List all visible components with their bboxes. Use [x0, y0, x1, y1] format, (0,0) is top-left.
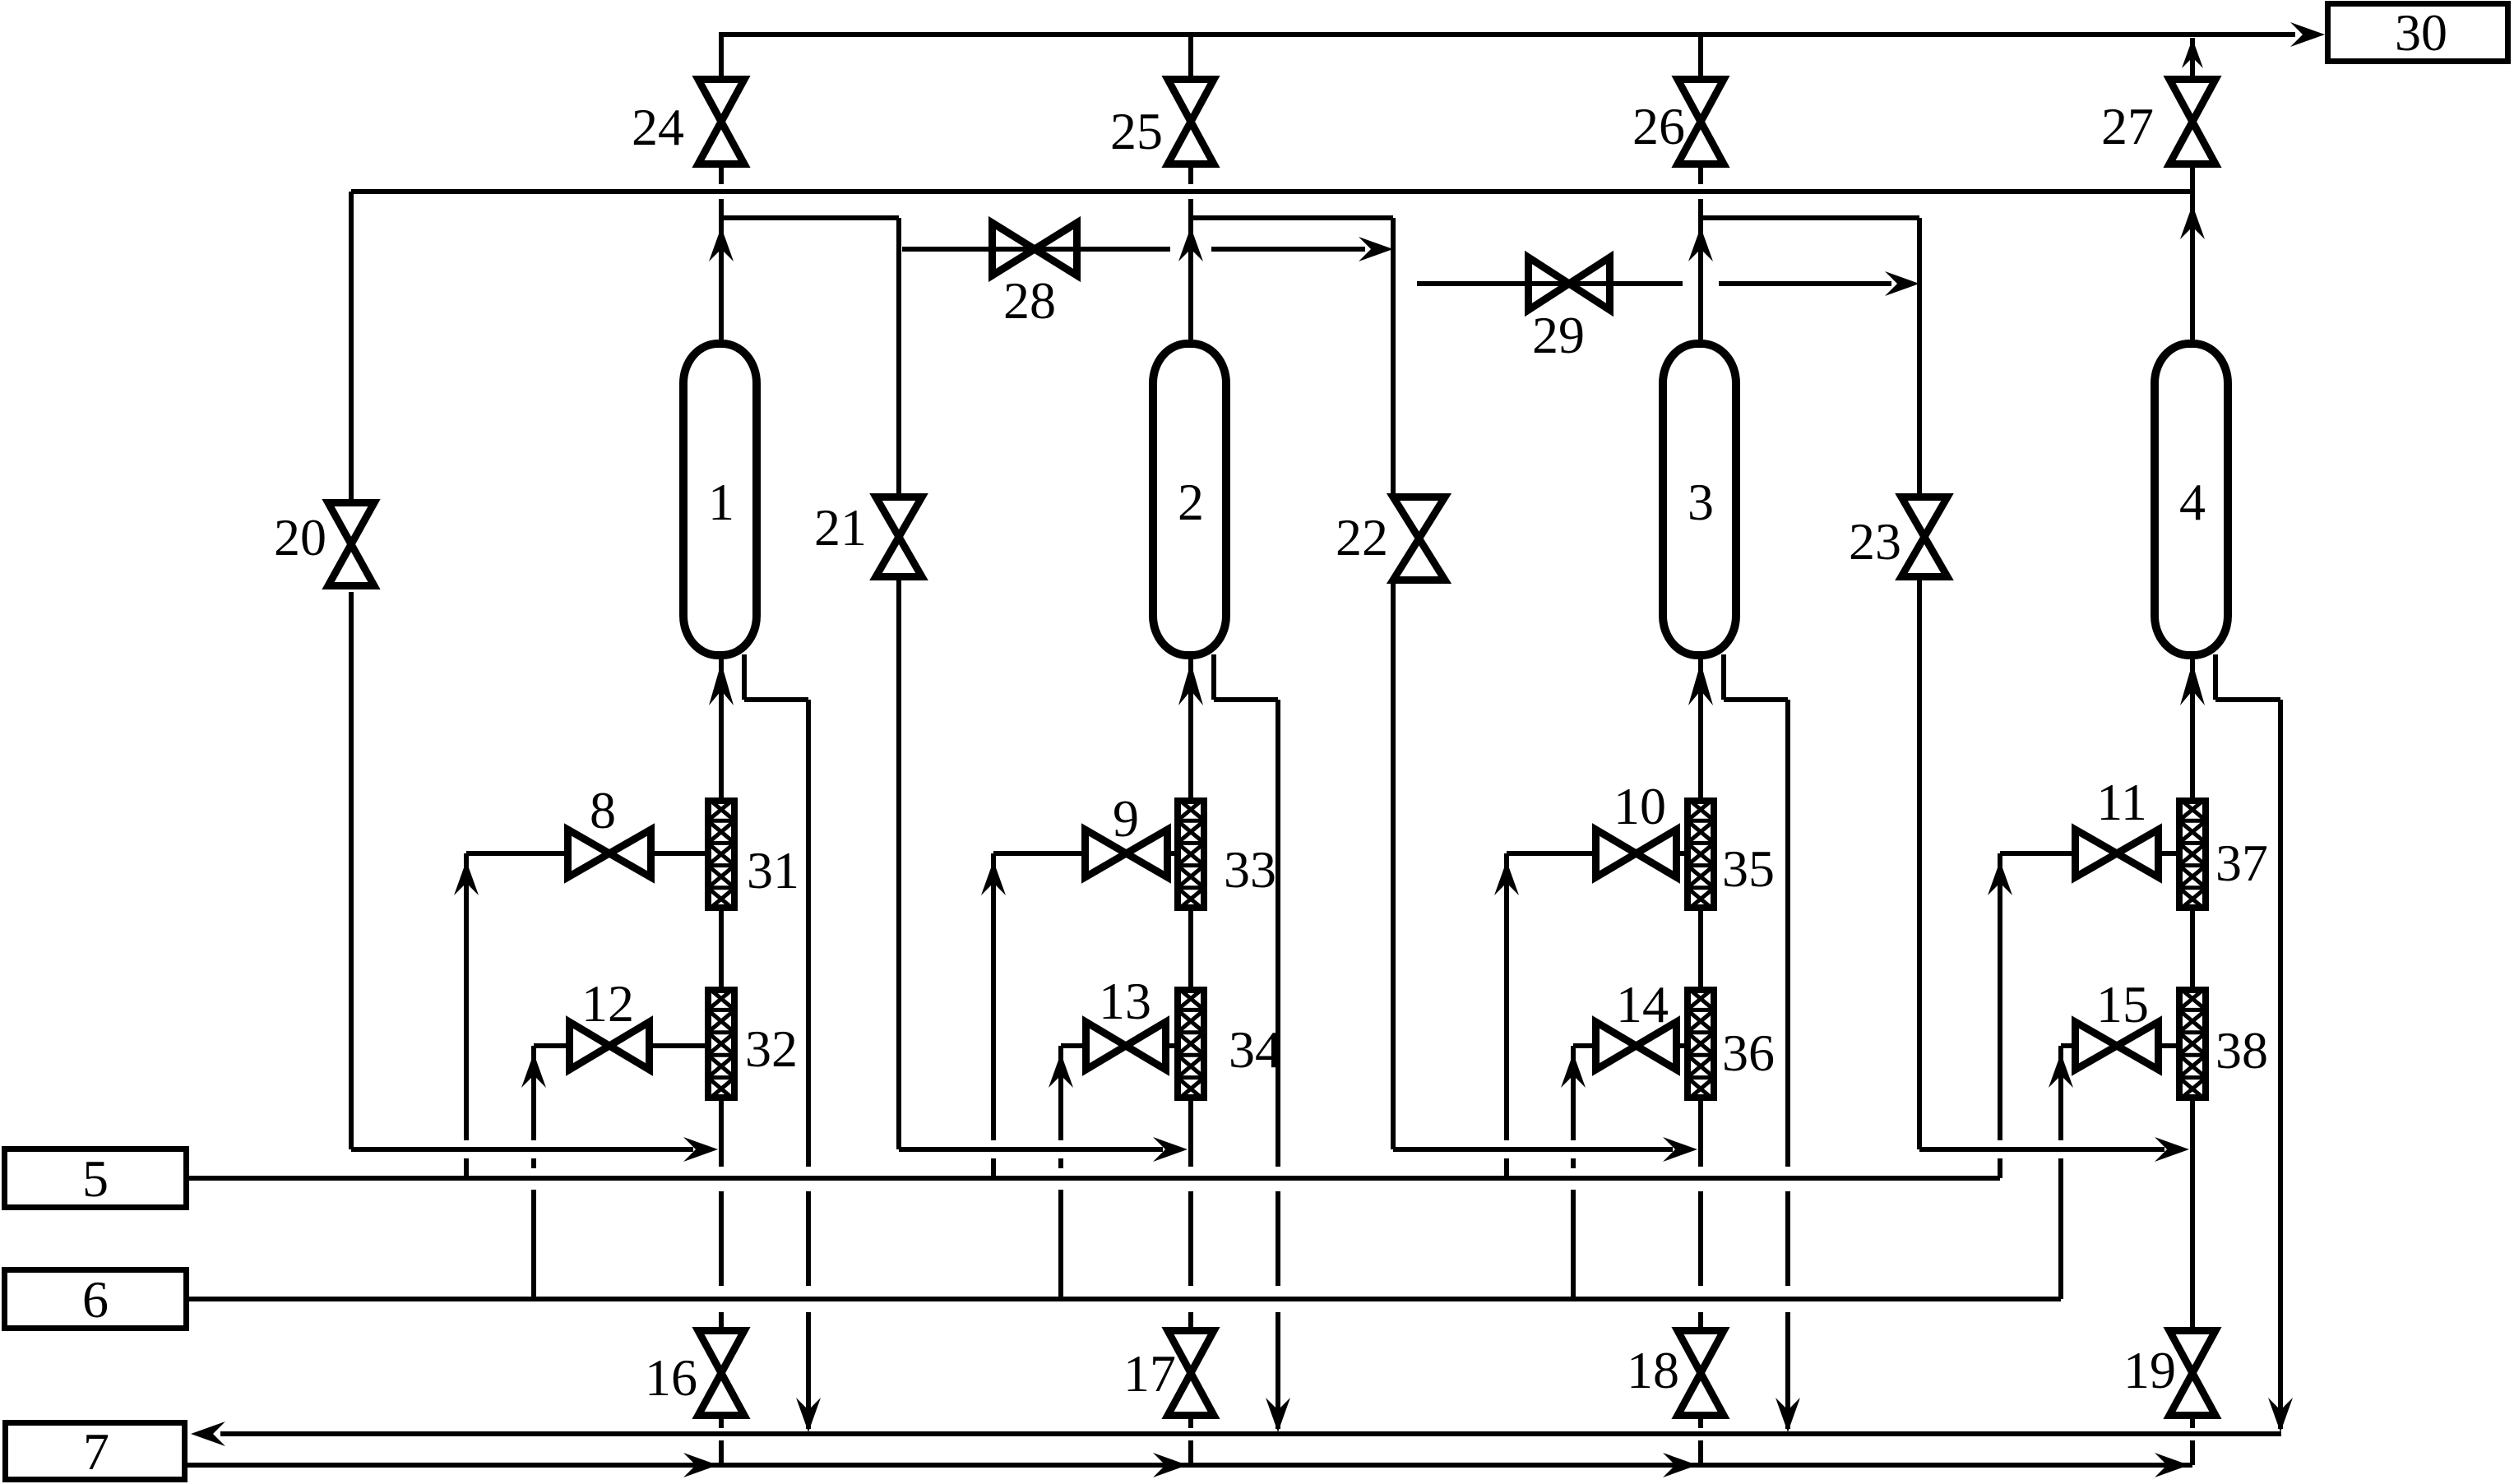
svg-text:20: 20 [274, 508, 326, 566]
svg-text:3: 3 [1688, 473, 1714, 531]
svg-text:27: 27 [2101, 97, 2154, 155]
svg-text:7: 7 [83, 1422, 109, 1481]
svg-text:32: 32 [745, 1019, 798, 1078]
svg-text:10: 10 [1613, 777, 1666, 835]
svg-text:34: 34 [1229, 1020, 1281, 1079]
svg-text:23: 23 [1849, 512, 1901, 571]
svg-text:16: 16 [645, 1348, 697, 1407]
svg-text:13: 13 [1099, 972, 1151, 1030]
svg-text:8: 8 [590, 781, 616, 839]
svg-text:9: 9 [1113, 789, 1139, 848]
svg-text:30: 30 [2395, 3, 2447, 62]
svg-text:26: 26 [1632, 97, 1685, 155]
svg-text:29: 29 [1532, 306, 1585, 364]
svg-text:25: 25 [1110, 102, 1163, 160]
svg-text:18: 18 [1627, 1341, 1679, 1399]
svg-text:28: 28 [1003, 271, 1056, 330]
svg-text:2: 2 [1178, 473, 1204, 531]
svg-text:17: 17 [1123, 1344, 1176, 1403]
svg-text:36: 36 [1722, 1024, 1775, 1082]
svg-text:33: 33 [1224, 840, 1276, 899]
svg-text:6: 6 [82, 1270, 109, 1329]
svg-text:21: 21 [814, 498, 867, 557]
svg-text:14: 14 [1616, 975, 1669, 1033]
svg-text:35: 35 [1722, 839, 1775, 898]
svg-text:4: 4 [2179, 473, 2206, 531]
svg-text:1: 1 [708, 473, 734, 531]
svg-text:22: 22 [1336, 508, 1388, 566]
svg-text:12: 12 [581, 974, 634, 1033]
svg-text:15: 15 [2096, 975, 2149, 1033]
svg-text:31: 31 [747, 841, 799, 899]
svg-text:19: 19 [2123, 1341, 2176, 1399]
svg-text:24: 24 [632, 98, 684, 156]
svg-text:5: 5 [82, 1149, 109, 1208]
svg-text:37: 37 [2215, 834, 2268, 892]
svg-text:11: 11 [2096, 773, 2147, 831]
svg-text:38: 38 [2215, 1021, 2268, 1079]
